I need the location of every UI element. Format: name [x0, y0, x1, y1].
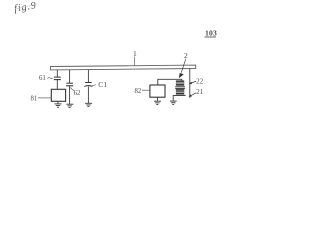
- box 81 (circuit block): [51, 89, 65, 101]
- wire: capacitor 61 to box 81: [56, 80, 58, 90]
- leader for label 21 with arrowhead: [189, 93, 197, 97]
- leader for label 61 (tilde): [48, 78, 53, 79]
- wire: capacitor C1 to ground: [87, 86, 89, 103]
- leader for label 1: [133, 57, 136, 66]
- label 1: [133, 49, 137, 58]
- svg-text:103: 103: [205, 28, 217, 37]
- electrode plate (upper face of lower block): [175, 88, 185, 90]
- ground below box 82: [154, 101, 161, 104]
- leader for label 82: [142, 89, 150, 91]
- wire: drop from bar to capacitor C1: [87, 70, 89, 83]
- label 61: [39, 75, 46, 82]
- label 82: [135, 88, 142, 95]
- bottom electrode plate of element 2: [175, 94, 186, 96]
- element 2: lower piezo block (electrode 21): [176, 89, 184, 94]
- ground below box 81: [55, 104, 62, 107]
- leader for label 62: [70, 87, 74, 90]
- leader for label C1: [90, 85, 96, 87]
- capacitor 61: [54, 77, 61, 80]
- capacitor C1: [84, 83, 92, 87]
- svg-text:C1: C1: [98, 80, 107, 89]
- svg-text:82: 82: [135, 88, 142, 95]
- element 2: upper piezo block (electrode 22): [176, 81, 184, 86]
- leader for label 2 with arrowhead: [179, 59, 186, 78]
- svg-text:fig.9: fig.9: [13, 0, 37, 14]
- wire: capacitor 62 to ground: [69, 86, 71, 104]
- leader for label 81: [38, 97, 52, 99]
- svg-text:81: 81: [31, 96, 38, 103]
- figure caption fig.9 (faint handwritten): [13, 0, 39, 15]
- capacitor 62: [66, 83, 73, 86]
- svg-text:21: 21: [196, 89, 203, 96]
- label 81: [31, 96, 38, 103]
- wire: box 82 top to element 2 top electrode: [158, 79, 182, 85]
- svg-text:2: 2: [184, 51, 188, 60]
- label 22: [196, 79, 203, 86]
- wire: drop from bar to capacitor 61: [56, 70, 58, 77]
- wire: box 82 to ground: [156, 97, 158, 101]
- ground below capacitor C1: [85, 103, 92, 106]
- electrode plate (lower face of upper block): [175, 86, 185, 88]
- ground below element 2: [170, 101, 177, 104]
- leader for label 22 with arrowhead: [189, 81, 196, 84]
- label 21: [196, 89, 203, 96]
- box 82 (circuit block): [150, 85, 165, 97]
- label 62: [74, 90, 81, 97]
- label C1: [98, 80, 107, 89]
- ground below capacitor 62: [66, 104, 73, 107]
- reference numeral 103 (underlined): [205, 28, 218, 37]
- label 2: [184, 51, 188, 60]
- svg-text:22: 22: [196, 79, 203, 86]
- wire: drop from bar to capacitor 62: [69, 70, 71, 83]
- svg-text:62: 62: [74, 90, 81, 97]
- wire: bar right end down along element 2: [189, 69, 191, 98]
- bus bar 1 (piezoelectric plate): [51, 65, 196, 70]
- wire: box 81 to ground: [57, 101, 59, 103]
- wire: bottom electrode to ground: [173, 95, 175, 101]
- svg-text:61: 61: [39, 75, 46, 82]
